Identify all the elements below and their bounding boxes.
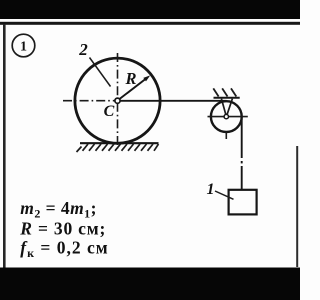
pulley horizontal centerline: [208, 116, 248, 118]
leader line from label 2 to wheel: [90, 58, 111, 87]
pulley axle pin: [224, 114, 228, 118]
wheel hub pin at C: [115, 98, 120, 103]
pulley circle: [211, 101, 242, 132]
pulley vertical centerline tick below: [225, 132, 227, 139]
frame top border line: [0, 22, 300, 25]
frame left border line: [3, 24, 6, 268]
frame right border line: [296, 146, 298, 267]
ground hatching: [77, 144, 159, 152]
vertical cord from pulley to load: [241, 117, 243, 190]
wheel 2 rim circle: [75, 58, 160, 143]
leader line from label 1 to load: [215, 191, 234, 199]
svg-text:C: C: [104, 103, 115, 120]
horizontal cord from wheel axle to pulley: [118, 100, 227, 102]
ceiling hatching: [213, 88, 236, 96]
variant number circle badge: [12, 34, 35, 57]
ground line under wheel: [80, 142, 159, 144]
svg-text:R: R: [124, 69, 136, 88]
svg-text:R = 30 см;: R = 30 см;: [19, 218, 106, 238]
svg-text:2: 2: [78, 40, 88, 59]
wheel vertical centerline (dash-dot): [117, 53, 119, 149]
pulley ceiling mount line: [214, 97, 240, 99]
svg-text:1: 1: [207, 181, 215, 198]
bottom black scan band: [0, 268, 300, 300]
pulley bracket V: [221, 99, 232, 115]
wheel horizontal centerline (dash-dot): [63, 100, 118, 102]
svg-text:1: 1: [20, 40, 27, 55]
top black scan band: [0, 0, 300, 19]
radius arrow R: [119, 75, 151, 99]
load 1 box: [229, 190, 257, 215]
